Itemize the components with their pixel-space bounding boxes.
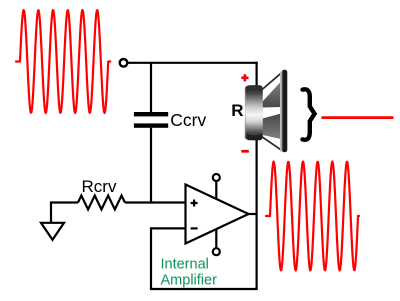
speaker: back plate stripe <box>245 86 251 140</box>
op-amp minus input mark <box>191 227 198 229</box>
wire ground stub <box>50 201 52 222</box>
op-amp U1 triangle <box>186 185 249 244</box>
speaker: inner rim face <box>280 72 283 152</box>
speaker: magnet bottom cap <box>247 134 262 141</box>
wire speaker/right vertical <box>256 62 258 289</box>
wire box bottom edge <box>150 288 258 290</box>
svg-text:Rcrv: Rcrv <box>82 177 117 196</box>
flat DC output line (red) <box>322 116 394 119</box>
output sine wave (bottom right) <box>266 162 359 271</box>
capacitor C plates <box>134 112 168 116</box>
wire input right of resistor <box>125 201 186 203</box>
wire op-amp bottom power stub <box>215 229 217 248</box>
op-amp plus input mark <box>191 200 198 207</box>
speaker: cone upper strut <box>263 82 282 108</box>
op-amp bottom power pin circle <box>213 248 220 255</box>
speaker: magnet top cap <box>247 85 262 92</box>
speaker: magnet body <box>246 85 263 140</box>
node input terminal circle <box>120 59 128 67</box>
speaker: cone outline <box>262 73 282 150</box>
svg-text:R: R <box>231 101 243 120</box>
wire feedback: minus input to box left <box>151 227 186 229</box>
ground symbol <box>41 223 64 240</box>
wire output stub to right rail <box>249 213 257 215</box>
svg-text:Amplifier: Amplifier <box>161 272 218 288</box>
wire top horizontal <box>128 62 258 64</box>
op-amp top power pin circle <box>213 174 220 181</box>
speaker: cone lower strut <box>263 114 282 140</box>
curly brace <box>303 89 315 139</box>
wire capacitor bottom branch <box>150 128 152 204</box>
wire op-amp top power stub <box>215 181 217 199</box>
speaker: rim <box>282 70 288 152</box>
svg-text:Internal: Internal <box>161 257 209 273</box>
minus terminal mark (red) <box>241 150 249 153</box>
plus terminal mark (red) <box>241 74 248 81</box>
input sine wave (top left) <box>16 10 110 113</box>
svg-text:Ccrv: Ccrv <box>170 110 206 130</box>
wire capacitor top branch <box>150 63 152 112</box>
wire box left edge <box>150 227 152 289</box>
resistor Rcrv zigzag <box>78 196 125 210</box>
wire input left of resistor <box>51 201 78 203</box>
